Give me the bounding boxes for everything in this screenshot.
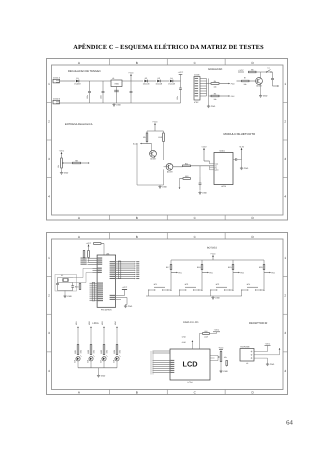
LED D5 xyxy=(76,357,80,361)
wire lcd right pins xyxy=(210,356,218,361)
resistor R24 330 xyxy=(116,345,118,355)
svg-text:LD4: LD4 xyxy=(114,320,117,325)
svg-text:VCC: VCC xyxy=(215,163,219,166)
module left pins xyxy=(210,164,215,170)
svg-text:C: C xyxy=(194,390,197,394)
svg-text:C: C xyxy=(194,235,197,239)
svg-text:3: 3 xyxy=(48,157,50,161)
svg-text:LCD: LCD xyxy=(183,360,198,369)
svg-text:BT4: BT4 xyxy=(247,283,250,286)
ground crystal xyxy=(64,291,66,295)
display LCD1 xyxy=(170,349,210,380)
svg-text:PGC: PGC xyxy=(231,95,236,98)
svg-text:GND: GND xyxy=(162,186,167,189)
svg-text:D: D xyxy=(251,235,254,239)
svg-text:1: 1 xyxy=(48,256,50,260)
transistor Q2 BC337 xyxy=(150,150,157,157)
resistor R21 330 xyxy=(77,345,79,355)
svg-text:A: A xyxy=(78,61,81,65)
svg-text:1N4007: 1N4007 xyxy=(74,82,81,85)
wire Q2 emitter loop xyxy=(137,144,164,186)
svg-text:2: 2 xyxy=(48,119,50,123)
ground botoes xyxy=(212,295,214,298)
svg-text:GND: GND xyxy=(116,104,121,107)
svg-text:GND: GND xyxy=(223,370,228,373)
svg-text:+VCC: +VCC xyxy=(152,121,158,124)
svg-text:R20: R20 xyxy=(259,266,262,269)
wire CON8 pin to ground xyxy=(208,96,210,105)
svg-text:330: 330 xyxy=(79,349,82,353)
svg-text:TSOP4838: TSOP4838 xyxy=(240,346,249,349)
svg-text:PB4: PB4 xyxy=(271,271,274,274)
ground regulator rail xyxy=(113,103,115,105)
svg-text:3: 3 xyxy=(284,157,286,161)
svg-text:CON2-2: CON2-2 xyxy=(53,97,60,100)
svg-text:RECEPTOR IR: RECEPTOR IR xyxy=(249,322,267,325)
svg-text:R10: R10 xyxy=(158,136,161,139)
svg-text:3: 3 xyxy=(48,331,50,335)
svg-text:CON8: CON8 xyxy=(194,74,199,77)
transistor Q1 BC337 xyxy=(256,78,263,85)
svg-text:GND: GND xyxy=(263,95,268,98)
wire BT3 to gnd bus xyxy=(210,290,212,296)
svg-text:D2: D2 xyxy=(145,77,147,80)
svg-text:CON1-2: CON1-2 xyxy=(53,76,60,79)
svg-text:GND: GND xyxy=(244,167,249,170)
svg-text:GND: GND xyxy=(182,336,187,339)
svg-text:R19: R19 xyxy=(228,266,231,269)
ground ir xyxy=(267,358,269,362)
svg-text:B: B xyxy=(136,235,138,239)
svg-text:A: A xyxy=(78,235,81,239)
capacitor C10 xyxy=(57,278,59,284)
svg-text:BC337: BC337 xyxy=(150,157,156,160)
wire R6 to node xyxy=(256,71,273,73)
wire BT1 to gnd bus xyxy=(148,290,150,296)
svg-text:LD1: LD1 xyxy=(75,320,78,325)
svg-text:2: 2 xyxy=(284,294,286,298)
resistor R13 xyxy=(94,243,102,245)
ground level shifter xyxy=(159,185,161,187)
capacitor C1 xyxy=(89,81,91,91)
svg-text:100n: 100n xyxy=(176,96,179,100)
wire botoes ground bus xyxy=(146,295,242,297)
svg-text:U2: U2 xyxy=(246,362,248,365)
svg-text:4: 4 xyxy=(48,194,50,198)
svg-text:LD2: LD2 xyxy=(88,320,91,325)
wire BT2 to gnd bus xyxy=(179,290,181,296)
svg-text:330: 330 xyxy=(118,349,121,353)
wire R5 to PGC xyxy=(219,95,229,97)
wire vcc rail xyxy=(147,130,164,132)
diode D4 1N4148 xyxy=(170,80,173,83)
svg-text:R4: R4 xyxy=(214,80,216,83)
resistor R19 pull-up xyxy=(232,260,234,265)
svg-text:GND: GND xyxy=(215,297,220,300)
wire CON8 vertical bus pair xyxy=(206,79,208,97)
svg-text:R18: R18 xyxy=(197,266,200,269)
svg-text:R22: R22 xyxy=(87,349,90,354)
svg-text:+VCC: +VCC xyxy=(218,346,224,349)
svg-text:GND: GND xyxy=(270,363,275,366)
capacitor C2 xyxy=(102,81,104,91)
svg-text:+VCC: +VCC xyxy=(265,342,271,345)
svg-text:+3.3V: +3.3V xyxy=(239,145,245,148)
wire R8 to AN0 arrow xyxy=(81,162,89,164)
svg-text:+VCC: +VCC xyxy=(128,72,134,75)
resistor R8 xyxy=(73,162,81,164)
resistor R15 xyxy=(88,249,90,252)
resistor R10 xyxy=(163,131,165,133)
svg-text:PB2: PB2 xyxy=(209,271,212,274)
wire node PB2 xyxy=(201,270,203,292)
svg-text:D1: D1 xyxy=(76,77,78,80)
svg-text:R24: R24 xyxy=(113,349,116,354)
resistor R23 330 xyxy=(103,345,105,355)
U01 right pin bus xyxy=(116,261,135,263)
wire D4 to +3.3V node xyxy=(173,80,181,82)
ground module right xyxy=(241,160,243,167)
svg-text:1: 1 xyxy=(48,82,50,86)
svg-text:+VCC: +VCC xyxy=(86,242,92,245)
svg-text:LD3: LD3 xyxy=(101,320,104,325)
svg-text:R21: R21 xyxy=(74,349,77,354)
capacitor C7 xyxy=(272,72,274,78)
ground leds xyxy=(98,368,100,374)
svg-text:D: D xyxy=(251,61,254,65)
svg-text:64: 64 xyxy=(286,420,293,427)
resistor R20 pull-up xyxy=(263,260,265,265)
svg-text:+VCC: +VCC xyxy=(238,69,244,72)
svg-text:D: D xyxy=(251,216,254,220)
svg-text:R5: R5 xyxy=(214,93,216,96)
wire crystal to osc pins xyxy=(73,268,93,282)
svg-text:+VCC: +VCC xyxy=(59,150,65,153)
svg-text:+VCC: +VCC xyxy=(214,329,220,332)
svg-text:1: 1 xyxy=(284,82,286,86)
svg-text:R6: R6 xyxy=(251,69,253,72)
svg-text:LCD4: LCD4 xyxy=(188,381,193,384)
resistor R14 xyxy=(83,249,85,252)
resistor R22 330 xyxy=(90,345,92,355)
ground Q1 xyxy=(260,94,262,96)
svg-text:7805: 7805 xyxy=(114,83,119,86)
svg-text:LEDS: LEDS xyxy=(92,322,98,325)
svg-text:C: C xyxy=(194,216,197,220)
svg-text:330: 330 xyxy=(105,349,108,353)
U01 left pins group 2 osc xyxy=(93,267,98,269)
wire lcd left pins xyxy=(153,350,171,352)
svg-text:R7: R7 xyxy=(244,77,246,80)
svg-text:R9: R9 xyxy=(143,136,145,139)
crystal X1 xyxy=(55,275,77,292)
resistor R17 pull-up xyxy=(170,260,172,265)
wire D2-D3 xyxy=(148,80,157,82)
wire R11 to module xyxy=(191,165,214,167)
svg-text:R23: R23 xyxy=(100,349,103,354)
resistor R5 10k xyxy=(211,95,219,97)
wire D3-D4 xyxy=(160,80,169,82)
resistor R18 pull-up xyxy=(201,260,203,265)
svg-text:D4: D4 xyxy=(170,77,172,80)
wire R4 to PGD xyxy=(219,83,229,85)
wire Q1 collector to node xyxy=(260,72,262,78)
svg-text:R8: R8 xyxy=(75,160,77,163)
svg-text:GND: GND xyxy=(182,341,187,344)
wire D1 to U1 xyxy=(79,80,111,82)
ground gravacao xyxy=(208,105,210,107)
svg-text:R11: R11 xyxy=(185,162,188,165)
svg-text:A: A xyxy=(78,216,81,220)
svg-text:BT3: BT3 xyxy=(216,283,219,286)
svg-text:10k: 10k xyxy=(244,83,247,86)
svg-text:ICSP: ICSP xyxy=(194,101,199,104)
svg-text:BT2: BT2 xyxy=(185,283,188,286)
svg-text:GND: GND xyxy=(202,192,207,195)
wire node PB4 xyxy=(263,270,265,292)
svg-text:1N4148: 1N4148 xyxy=(168,82,175,85)
svg-text:100R: 100R xyxy=(204,335,209,338)
svg-text:10k: 10k xyxy=(224,356,227,359)
wire R12 down pin xyxy=(180,178,184,180)
svg-text:2: 2 xyxy=(284,119,286,123)
node MCLR arrow xyxy=(273,85,278,87)
wire node PB1 xyxy=(170,270,172,292)
svg-text:R12: R12 xyxy=(185,175,188,178)
capacitor C8 xyxy=(199,166,201,177)
LED D6 xyxy=(89,357,93,361)
svg-text:PB1: PB1 xyxy=(178,271,181,274)
svg-text:10k: 10k xyxy=(214,86,217,89)
svg-text:B: B xyxy=(136,390,138,394)
svg-text:3: 3 xyxy=(284,331,286,335)
svg-text:100u: 100u xyxy=(86,95,89,99)
ground C8 xyxy=(199,191,201,193)
svg-text:1N4148: 1N4148 xyxy=(155,82,162,85)
diode D2 1N4148 xyxy=(144,80,147,83)
wire BT4 to gnd bus xyxy=(241,290,243,296)
svg-text:PIC16F876: PIC16F876 xyxy=(101,308,112,311)
svg-text:2: 2 xyxy=(48,294,50,298)
svg-text:BT1: BT1 xyxy=(154,283,157,286)
wire ground rail xyxy=(60,102,181,104)
svg-text:1: 1 xyxy=(284,256,286,260)
svg-text:BC337: BC337 xyxy=(256,85,262,88)
wire pot wiper xyxy=(65,162,73,164)
svg-text:1N4148: 1N4148 xyxy=(143,82,150,85)
svg-text:4: 4 xyxy=(48,369,50,373)
capacitor C11 xyxy=(72,283,74,286)
ground mcu xyxy=(125,305,127,307)
svg-text:R16: R16 xyxy=(75,285,78,288)
wire Q1 emitter down xyxy=(260,84,262,94)
svg-text:D3: D3 xyxy=(158,77,160,80)
U01 left pin field connector xyxy=(90,282,98,284)
capacitor C3 xyxy=(114,89,119,91)
transistor Q3 BC337 xyxy=(166,163,173,170)
wire node PB3 xyxy=(232,270,234,292)
ground lcd pot xyxy=(220,362,222,370)
node IR out arrow xyxy=(279,348,281,355)
svg-text:GND: GND xyxy=(128,305,133,308)
capacitor C4 xyxy=(130,81,132,91)
resistor R12 xyxy=(183,178,191,180)
svg-text:+VCC: +VCC xyxy=(178,71,184,74)
svg-text:DISPLAY LCD: DISPLAY LCD xyxy=(183,321,199,324)
svg-text:GND: GND xyxy=(64,172,69,175)
wire CON1 to D1 xyxy=(60,80,76,82)
svg-text:4: 4 xyxy=(284,194,286,198)
svg-text:ENTRADA ANALOGICA: ENTRADA ANALOGICA xyxy=(65,123,93,126)
svg-text:MODULO BLUETOOTH: MODULO BLUETOOTH xyxy=(224,132,256,136)
resistor R26 xyxy=(226,361,228,366)
resistor R6 xyxy=(249,71,257,73)
ground pot xyxy=(61,168,63,171)
diode D3 1N4148 xyxy=(157,80,160,83)
wire botoes top bus xyxy=(171,259,264,261)
svg-text:+VCC: +VCC xyxy=(210,253,216,256)
resistor R16 series osc xyxy=(79,284,81,290)
wire leds bus xyxy=(78,367,117,369)
capacitor C9 module xyxy=(233,159,236,161)
svg-text:100n: 100n xyxy=(100,95,103,99)
svg-text:GND: GND xyxy=(67,295,72,298)
U01 right pins bottom xyxy=(110,295,115,296)
potentiometer P1 10k xyxy=(61,158,63,168)
svg-text:B: B xyxy=(136,216,138,220)
U01 left pins group 1 xyxy=(88,257,98,259)
LED D7 xyxy=(102,357,106,361)
svg-text:A: A xyxy=(78,390,81,394)
svg-text:B: B xyxy=(136,61,138,65)
svg-text:GND: GND xyxy=(211,105,216,108)
resistor R11 xyxy=(183,165,191,167)
wire R9 to Q2 xyxy=(146,142,148,144)
svg-text:PB3: PB3 xyxy=(240,271,243,274)
svg-text:D: D xyxy=(251,390,254,394)
svg-text:R17: R17 xyxy=(166,266,169,269)
resistor R7 xyxy=(242,80,250,82)
svg-text:GND: GND xyxy=(101,375,106,378)
svg-text:APÊNDICE C – ESQUEMA ELÉTRICO: APÊNDICE C – ESQUEMA ELÉTRICO DA MATRIZ … xyxy=(73,43,264,51)
svg-text:+3.3V: +3.3V xyxy=(201,145,207,148)
switch S1 xyxy=(266,71,267,72)
svg-text:PGD: PGD xyxy=(231,82,236,85)
svg-text:330: 330 xyxy=(92,349,95,353)
wire Q3 out xyxy=(173,166,183,168)
svg-text:HC05: HC05 xyxy=(221,185,226,188)
wire ir pins xyxy=(254,351,268,353)
svg-text:X1: X1 xyxy=(61,274,63,277)
resistor R4 10k xyxy=(211,83,219,85)
svg-text:GRAVACAO: GRAVACAO xyxy=(208,68,222,71)
wire U1 output xyxy=(122,80,143,82)
svg-text:+VCC: +VCC xyxy=(122,286,128,289)
wire R10 to Q3 collector xyxy=(163,142,165,161)
svg-text:4: 4 xyxy=(284,369,286,373)
svg-text:C: C xyxy=(194,61,197,65)
svg-text:BLUE: BLUE xyxy=(133,142,138,145)
svg-text:REGULACAO DE TENSAO: REGULACAO DE TENSAO xyxy=(68,70,101,73)
svg-text:BC337: BC337 xyxy=(167,170,173,173)
capacitor C5 xyxy=(180,74,182,88)
wire R7 to Q1 base xyxy=(249,80,256,82)
resistor R9 xyxy=(146,131,148,133)
wire mcu bottom right pins xyxy=(116,296,127,305)
svg-text:R25: R25 xyxy=(204,330,207,333)
LED D8 xyxy=(115,357,119,361)
diode D1 1N4007 xyxy=(76,80,79,83)
svg-text:S1: S1 xyxy=(267,66,269,69)
svg-text:10k: 10k xyxy=(57,165,60,168)
svg-text:BOTOES: BOTOES xyxy=(207,247,217,250)
svg-text:10k: 10k xyxy=(214,98,217,101)
